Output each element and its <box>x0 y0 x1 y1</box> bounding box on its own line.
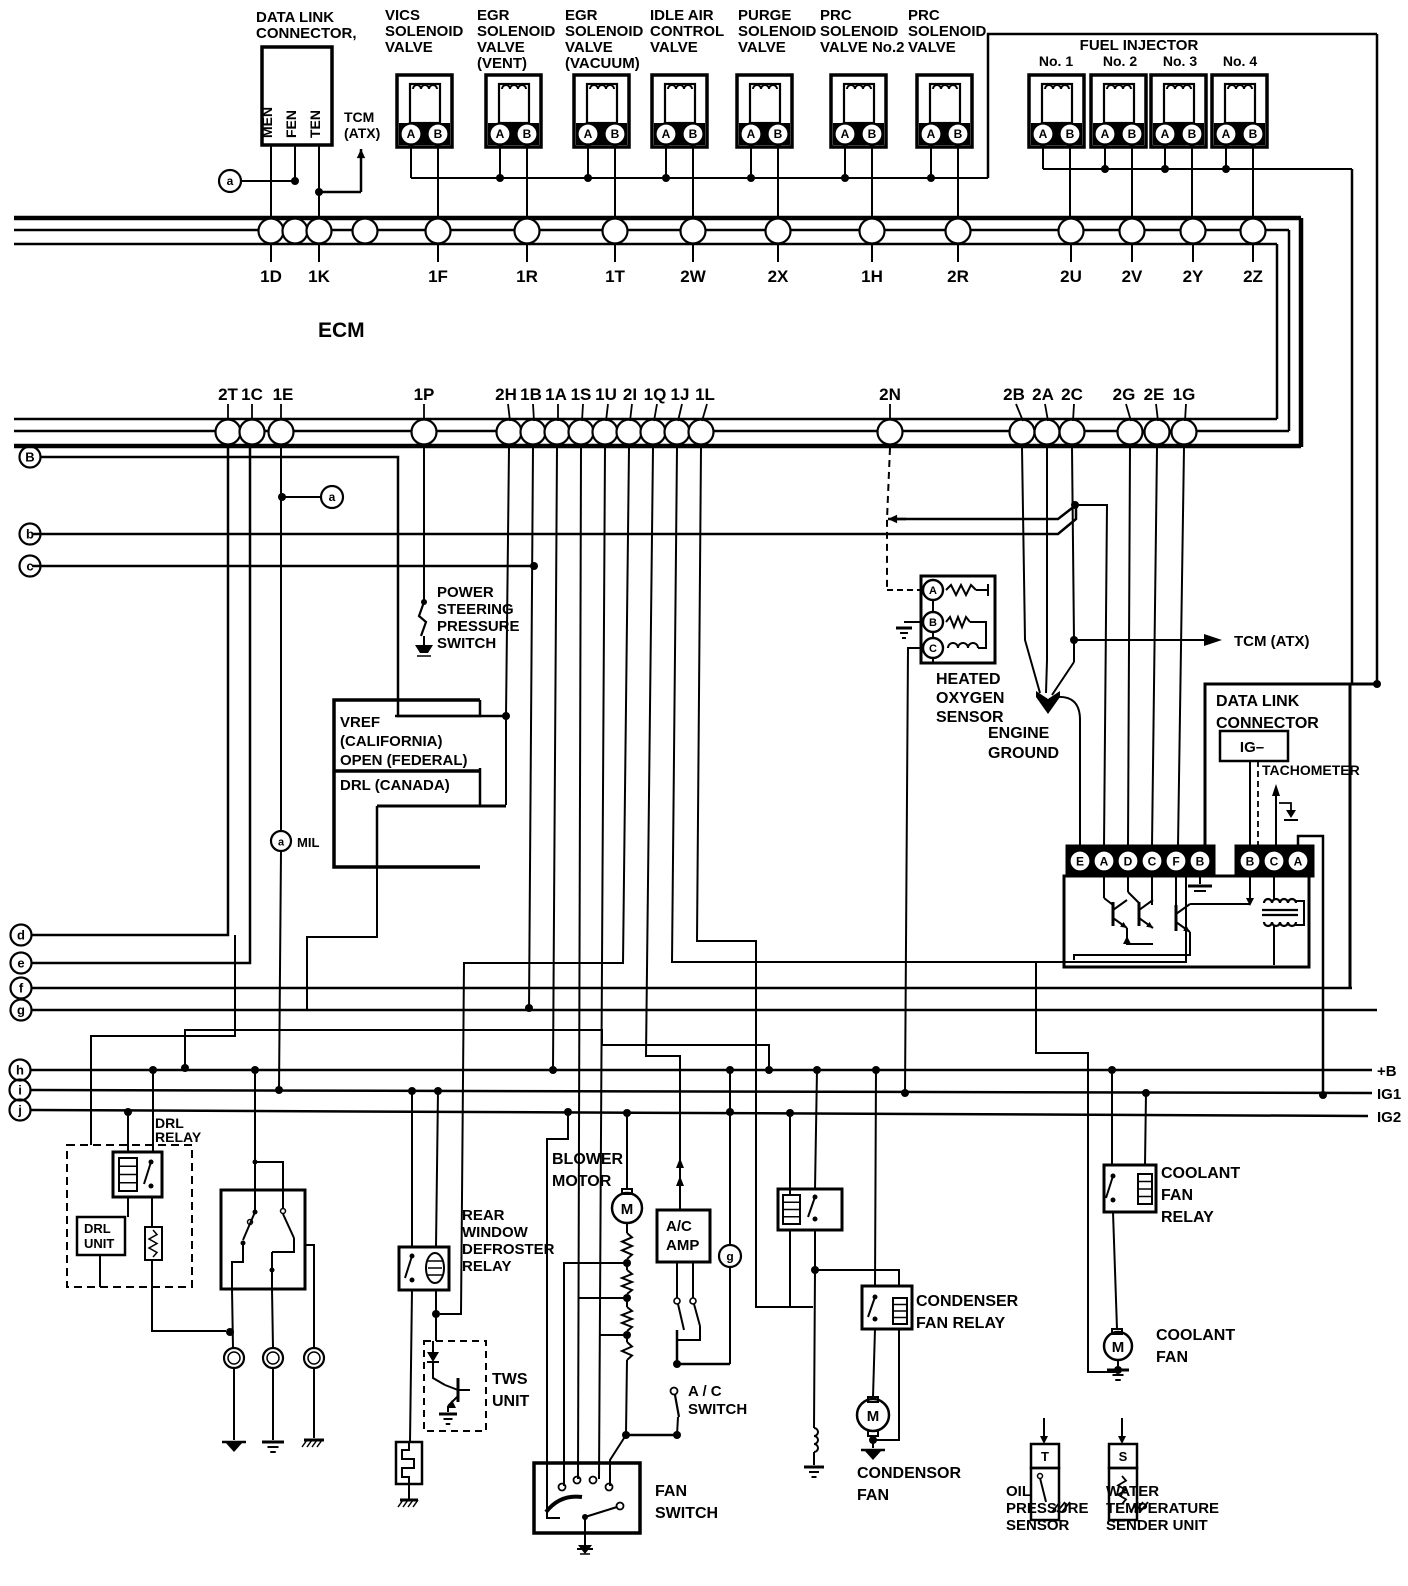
wire condenser fan to ground <box>872 1436 874 1448</box>
wire coolant fan to ground <box>1117 1360 1119 1368</box>
svg-text:j: j <box>17 1103 22 1118</box>
svg-text:B: B <box>1249 127 1258 141</box>
wire injector A common line <box>1042 147 1044 169</box>
wire chain bottom <box>626 1360 627 1433</box>
ref circle B <box>20 447 41 468</box>
wire IAC B pin to bus <box>692 147 694 219</box>
svg-text:PRESSURE: PRESSURE <box>1006 1500 1089 1517</box>
node TWS junction <box>432 1310 440 1318</box>
wire ECM upper bus top line <box>14 216 1301 221</box>
svg-text:VALVE: VALVE <box>565 39 613 56</box>
ground fuse <box>400 1499 418 1502</box>
wire 2H drop to VREF <box>506 448 509 805</box>
svg-text:B: B <box>25 450 34 465</box>
svg-text:h: h <box>16 1063 24 1078</box>
ECM pin 1D (upper bus) <box>259 219 284 244</box>
wire FEN to node a <box>294 145 296 181</box>
wire AC relay coil return <box>789 1230 791 1307</box>
wire Q3 emitter down <box>1074 932 1190 960</box>
ground lamp2 <box>262 1441 284 1444</box>
wire VICS B pin to bus <box>437 147 439 219</box>
wire MIL to IG1 <box>279 851 281 1090</box>
wire IG- solid drop <box>1249 761 1251 846</box>
wire tap1 to fan switch <box>564 1263 627 1486</box>
box IG- terminal <box>1220 731 1288 761</box>
ECM pin 2A (lower bus) <box>1035 420 1060 445</box>
svg-text:2Z: 2Z <box>1243 267 1263 286</box>
wire 2I drop jog to defroster relay path <box>440 448 629 1314</box>
transistor Q2 <box>1127 876 1129 892</box>
svg-text:A: A <box>662 127 671 141</box>
hatch WTSU case ground <box>1130 1502 1138 1512</box>
ECM pin 1L (lower bus) <box>689 420 714 445</box>
ref circle a2 <box>321 486 343 508</box>
svg-text:B: B <box>1196 855 1205 869</box>
arrow marks on AC amp feed <box>676 1158 684 1168</box>
connector DLC pins B C A <box>1236 846 1313 876</box>
wire PURGE A pin <box>750 147 752 178</box>
svg-text:(ATX): (ATX) <box>344 125 380 141</box>
svg-text:A: A <box>1161 127 1170 141</box>
svg-text:A: A <box>841 127 850 141</box>
wire injector No.3 A pin <box>1164 147 1166 169</box>
ECM pin 2T (lower bus) <box>216 420 241 445</box>
svg-text:a: a <box>227 174 234 188</box>
node g-wire +B <box>726 1066 734 1074</box>
svg-text:ENGINE: ENGINE <box>988 725 1050 742</box>
wire net b <box>32 507 1076 534</box>
wire tap3 joins 1U wire <box>599 1334 627 1336</box>
svg-text:M: M <box>867 1408 880 1425</box>
relay coolant fan relay <box>1104 1165 1156 1212</box>
node AC relay coil IG2 <box>786 1109 794 1117</box>
ECM pin 1K (upper bus) <box>307 219 332 244</box>
wire EGRvac B pin to bus <box>614 147 616 219</box>
node coolant relay contact +B <box>1108 1066 1116 1074</box>
node 1B g-line end <box>525 1004 533 1012</box>
relay condenser fan relay <box>862 1286 912 1329</box>
wire net d <box>32 447 228 935</box>
svg-text:VALVE: VALVE <box>908 39 956 56</box>
svg-text:A: A <box>584 127 593 141</box>
ground lamp1 <box>225 1442 243 1452</box>
svg-text:1P: 1P <box>414 385 435 404</box>
wire net i (IG1 rail) <box>31 1090 1372 1093</box>
svg-text:2R: 2R <box>947 267 969 286</box>
wire 2C diagonal to engine ground <box>1052 662 1074 695</box>
svg-text:CONNECTOR,: CONNECTOR, <box>256 25 357 42</box>
svg-text:2W: 2W <box>680 267 706 286</box>
wire IG2 to blower motor <box>626 1113 628 1189</box>
ignition coil core <box>1262 909 1298 911</box>
ground TWS emitter <box>447 1406 449 1412</box>
wire tach branch to ground <box>1279 803 1291 810</box>
svg-text:IG–: IG– <box>1240 739 1264 756</box>
unit TWS dashed box <box>424 1341 486 1431</box>
svg-text:2T: 2T <box>218 385 238 404</box>
svg-text:AMP: AMP <box>666 1237 699 1254</box>
ref circle j <box>10 1100 31 1121</box>
ECM pin 2B (lower bus) <box>1010 420 1035 445</box>
ECM pin 1J (lower bus) <box>665 420 690 445</box>
lamp headlight L1 <box>224 1348 244 1368</box>
node tap3 <box>623 1331 631 1339</box>
fuel injector No.4 <box>1212 75 1267 147</box>
svg-text:WATER: WATER <box>1106 1483 1159 1500</box>
node AC relay contact +B <box>813 1066 821 1074</box>
sensor water temperature sender unit <box>1121 1418 1123 1440</box>
wire 1E drop <box>280 448 282 831</box>
svg-text:FEN: FEN <box>283 110 299 138</box>
wire ECM upper bus middle line <box>14 229 1289 232</box>
wire to g ref circle <box>677 1363 730 1366</box>
svg-text:CONDENSOR: CONDENSOR <box>857 1465 961 1482</box>
svg-text:No. 2: No. 2 <box>1103 53 1137 69</box>
wire AC relay branch down <box>814 1270 815 1428</box>
svg-text:DEFROSTER: DEFROSTER <box>462 1241 555 1258</box>
wire lamp1 to ground <box>233 1368 235 1440</box>
wire fan switch to ground <box>584 1517 586 1545</box>
inductor noise coil <box>814 1428 818 1452</box>
svg-text:DRL (CANADA): DRL (CANADA) <box>340 777 450 794</box>
node blower IG2 <box>623 1109 631 1117</box>
svg-text:A/C: A/C <box>666 1218 692 1235</box>
wire HO2S C to IG1 <box>932 658 934 663</box>
svg-text:D: D <box>1124 855 1133 869</box>
svg-text:SWITCH: SWITCH <box>688 1401 747 1418</box>
svg-text:2V: 2V <box>1122 267 1143 286</box>
node 1A +B junction <box>549 1066 557 1074</box>
wire AC switch node down <box>673 1431 681 1439</box>
wire coolant fan return jog <box>1036 962 1118 1372</box>
svg-text:1F: 1F <box>428 267 448 286</box>
svg-text:POWER: POWER <box>437 584 494 601</box>
svg-text:2E: 2E <box>1144 385 1165 404</box>
ECM pin unlabeled (upper bus) <box>283 219 308 244</box>
ground engine ground arrow <box>1036 691 1060 714</box>
wire PRC B pin to bus <box>957 147 959 219</box>
svg-text:OXYGEN: OXYGEN <box>936 690 1004 707</box>
svg-text:DATA LINK: DATA LINK <box>256 9 334 26</box>
svg-text:A: A <box>407 127 416 141</box>
wire IG2 to AC relay coil <box>789 1113 791 1195</box>
wire 2N dashed drop <box>887 448 890 590</box>
ECM pin 1P (lower bus) <box>412 420 437 445</box>
wire connector E curve to engine ground <box>1056 697 1080 846</box>
fuel injector No.2 <box>1091 75 1146 147</box>
wire B pin (DLC) to Q3 base <box>1249 876 1251 904</box>
svg-text:A / C: A / C <box>688 1383 722 1400</box>
wire diode to transistor <box>433 1362 445 1385</box>
switch blade 2 <box>282 1190 284 1208</box>
wire IAC A pin <box>665 147 667 178</box>
wire g ref drop <box>729 1070 731 1364</box>
svg-text:2Y: 2Y <box>1183 267 1204 286</box>
svg-text:FAN: FAN <box>1161 1187 1193 1204</box>
switch A/C switch <box>671 1388 678 1395</box>
resistor HO2S A element <box>946 585 976 595</box>
svg-text:HEATED: HEATED <box>936 671 1001 688</box>
wire DRL resistor to lamp line <box>152 1260 226 1331</box>
node fan switch feed IG2 <box>564 1108 572 1116</box>
svg-text:C: C <box>1270 855 1279 869</box>
wire TCM (ATX) line <box>1074 639 1204 641</box>
wire coil to ground <box>813 1452 815 1465</box>
wire IG- dashed drop <box>1257 761 1259 846</box>
svg-text:No. 1: No. 1 <box>1039 53 1073 69</box>
wire b-net arrow line to 2C <box>896 505 1076 519</box>
wire +B to DRL contact <box>152 1070 154 1152</box>
svg-text:A: A <box>1039 127 1048 141</box>
svg-text:SOLENOID: SOLENOID <box>565 23 644 40</box>
wire injector No.2 B pin to bus <box>1131 147 1133 219</box>
node A-IG1 <box>1319 1091 1327 1099</box>
node g net to DLC corner <box>1373 680 1381 688</box>
node c-1B junction <box>530 562 538 570</box>
svg-text:1L: 1L <box>695 385 715 404</box>
ECM pin 2X (upper bus) <box>766 219 791 244</box>
wire lamp3 from switch <box>305 1245 314 1349</box>
svg-text:FAN: FAN <box>857 1487 889 1504</box>
wire EGRV A pin <box>499 147 501 178</box>
wire IG1 to defroster coil <box>436 1091 438 1247</box>
wire injector No.4 B pin to bus <box>1252 147 1254 219</box>
svg-text:DATA LINK: DATA LINK <box>1216 693 1300 710</box>
svg-text:2N: 2N <box>879 385 901 404</box>
wire 1G drop to connector F <box>1178 448 1184 846</box>
wire IG2 to fan switch rotor <box>547 1112 568 1518</box>
ref circle e <box>11 953 32 974</box>
wire 2A drop to engine ground <box>1046 448 1047 693</box>
ECM pin 2N (lower bus) <box>878 420 903 445</box>
wire coolant relay out <box>1113 1212 1117 1329</box>
wire net B <box>41 457 506 716</box>
wire net g <box>32 1009 1377 1012</box>
wire branch to connector A pin <box>1076 505 1107 846</box>
svg-text:B: B <box>929 617 937 629</box>
svg-text:A: A <box>1101 127 1110 141</box>
box ECM driver circuit <box>1064 876 1309 967</box>
wire lamp2 from switch <box>271 1252 273 1289</box>
resistor blower R1 <box>626 1223 628 1233</box>
wire net f <box>32 987 1352 990</box>
ground connector B pin <box>1199 876 1201 884</box>
svg-text:CONTROL: CONTROL <box>650 23 724 40</box>
svg-text:1S: 1S <box>571 385 592 404</box>
wire 1B drop <box>529 448 533 1010</box>
svg-text:2H: 2H <box>495 385 517 404</box>
wire net j (IG2 rail) <box>31 1110 1368 1116</box>
svg-text:EGR: EGR <box>477 7 510 24</box>
svg-text:B: B <box>523 127 532 141</box>
svg-text:BLOWER: BLOWER <box>552 1151 624 1168</box>
svg-text:VALVE: VALVE <box>650 39 698 56</box>
node B-2H junction <box>502 712 510 720</box>
svg-text:SOLENOID: SOLENOID <box>738 23 817 40</box>
svg-text:1D: 1D <box>260 267 282 286</box>
wire +B branch jog <box>185 1030 769 1070</box>
wire 1Q drop jog to AC amp <box>646 448 680 1210</box>
connector J1 data link connector (MEN FEN TEN) <box>262 47 332 145</box>
wire solenoid A common line <box>410 147 412 178</box>
resistor blower R3 <box>626 1298 628 1307</box>
svg-text:B: B <box>1066 127 1075 141</box>
wire defroster coil to TWS node <box>435 1290 437 1314</box>
svg-text:RELAY: RELAY <box>1161 1209 1214 1226</box>
wire 2E drop to connector C <box>1152 448 1157 846</box>
ECM pin 2H (lower bus) <box>497 420 522 445</box>
wire net h (+B rail) <box>31 1069 1372 1072</box>
svg-text:B: B <box>1246 855 1255 869</box>
wire defroster contact out to fuse <box>410 1290 412 1442</box>
solenoid valve IAC <box>652 75 707 147</box>
ECM pin 1E (lower bus) <box>269 420 294 445</box>
wire +B to headlight switch <box>251 1066 259 1074</box>
svg-text:No. 4: No. 4 <box>1223 53 1257 69</box>
svg-text:1H: 1H <box>861 267 883 286</box>
svg-text:1B: 1B <box>520 385 542 404</box>
motor blower motor <box>622 1189 632 1194</box>
svg-text:A: A <box>747 127 756 141</box>
svg-text:FUEL INJECTOR: FUEL INJECTOR <box>1080 37 1199 54</box>
node DRL coil IG2 <box>124 1108 132 1116</box>
ref circle a <box>219 170 241 192</box>
svg-text:g: g <box>17 1003 25 1018</box>
ECM pin 2Y (upper bus) <box>1181 219 1206 244</box>
node 2C TCM tap <box>1070 636 1078 644</box>
wire 1L drop jog right <box>697 448 813 1307</box>
svg-text:+B: +B <box>1377 1063 1397 1080</box>
svg-text:GROUND: GROUND <box>988 745 1059 762</box>
lamp headlight L3 <box>304 1348 324 1368</box>
svg-text:IDLE AIR: IDLE AIR <box>650 7 714 24</box>
wire ECM upper bus bottom line <box>14 243 1277 246</box>
wire solenoid common up-right to g-net <box>988 34 1377 178</box>
wire condenser coil return <box>873 1329 899 1440</box>
switch blade 1 <box>254 1190 256 1212</box>
ECM pin 1T (upper bus) <box>603 219 628 244</box>
node HO2S-IG1 <box>901 1089 909 1097</box>
wire C F pins into box <box>1151 876 1153 905</box>
wire feed from d-line to DRL box <box>91 935 235 1145</box>
wire g-net right side vertical <box>1376 34 1379 684</box>
svg-text:DRL: DRL <box>84 1221 111 1236</box>
svg-text:No. 3: No. 3 <box>1163 53 1197 69</box>
wire EGRV B pin to bus <box>526 147 528 219</box>
svg-text:SENSOR: SENSOR <box>936 709 1004 726</box>
wire lamp3 to ground <box>313 1368 315 1438</box>
ECM pin 2V (upper bus) <box>1120 219 1145 244</box>
ECM pin 1F (upper bus) <box>426 219 451 244</box>
svg-text:IG1: IG1 <box>1377 1086 1401 1103</box>
svg-text:TCM (ATX): TCM (ATX) <box>1234 633 1310 650</box>
resistor DRL <box>145 1227 162 1260</box>
wire TCM(ATX) arrow <box>319 191 361 194</box>
svg-text:d: d <box>17 928 25 943</box>
switch AC amp contact 2 <box>690 1298 696 1304</box>
svg-text:STEERING: STEERING <box>437 601 514 618</box>
wire net e <box>32 447 250 963</box>
svg-text:A: A <box>1294 855 1303 869</box>
wire injector No.2 A pin <box>1104 147 1106 169</box>
svg-text:VALVE: VALVE <box>385 39 433 56</box>
wire AC amp out2 <box>692 1262 694 1298</box>
svg-text:OIL: OIL <box>1006 1483 1031 1500</box>
svg-text:1Q: 1Q <box>644 385 667 404</box>
wire ECM lower bus bottom line <box>14 444 1301 449</box>
ref circle g2 <box>719 1245 741 1267</box>
wire tap2 joins 1S wire <box>578 1297 627 1299</box>
svg-text:SOLENOID: SOLENOID <box>820 23 899 40</box>
relay rear window defroster relay <box>399 1247 449 1290</box>
ECM pin 1U (lower bus) <box>593 420 618 445</box>
ref circle g <box>11 1000 32 1021</box>
svg-text:2A: 2A <box>1032 385 1054 404</box>
fan switch blade2 <box>617 1503 624 1510</box>
wire coil to box bottom <box>1273 926 1275 965</box>
fuse rear defroster <box>396 1442 422 1484</box>
node a junction <box>291 177 299 185</box>
wire condenser relay out <box>873 1329 875 1397</box>
ECM pin 1H (upper bus) <box>860 219 885 244</box>
svg-text:RELAY: RELAY <box>155 1129 202 1145</box>
svg-text:PRC: PRC <box>908 7 940 24</box>
svg-text:CONDENSER: CONDENSER <box>916 1293 1019 1310</box>
svg-text:B: B <box>434 127 443 141</box>
transistor Q1 <box>1104 898 1113 905</box>
wire chain to AC switch <box>626 1434 677 1437</box>
svg-text:OPEN (FEDERAL): OPEN (FEDERAL) <box>340 752 468 769</box>
svg-text:A: A <box>496 127 505 141</box>
relay A/C relay <box>778 1189 842 1230</box>
wire 1P drop <box>423 448 425 600</box>
ref circle f <box>11 978 32 999</box>
svg-text:B: B <box>689 127 698 141</box>
svg-text:F: F <box>1172 855 1179 869</box>
svg-text:UNIT: UNIT <box>84 1236 114 1251</box>
wire HO2S A dashed lead <box>887 589 921 591</box>
wire 1S drop to fan switch <box>578 448 581 1479</box>
node chain bottom junction <box>622 1431 630 1439</box>
wire to a-circle 2 <box>282 496 321 498</box>
unit A/C AMP <box>657 1210 710 1262</box>
node g-wire join <box>673 1360 681 1368</box>
node condenser fan ground <box>869 1436 877 1444</box>
svg-text:MEN: MEN <box>259 107 275 138</box>
svg-text:1G: 1G <box>1173 385 1196 404</box>
ground fan switch <box>578 1545 592 1554</box>
wire chain to fan switch pin4 <box>610 1435 626 1486</box>
ground coolant fan <box>1107 1369 1129 1372</box>
ignition coil secondary <box>1264 922 1296 926</box>
hatch OPS case ground <box>1052 1502 1060 1512</box>
svg-text:e: e <box>17 956 24 971</box>
wire 2C drop <box>1072 448 1074 662</box>
svg-text:M: M <box>1112 1339 1125 1356</box>
svg-text:PURGE: PURGE <box>738 7 791 24</box>
wire PRC2 B pin to bus <box>871 147 873 219</box>
svg-text:1J: 1J <box>671 385 690 404</box>
wire 2B drop to engine ground <box>1022 448 1040 693</box>
resistor HO2S B element <box>946 617 970 627</box>
sensor heated oxygen sensor <box>921 576 995 663</box>
svg-text:S: S <box>1119 1449 1128 1464</box>
svg-text:FAN: FAN <box>655 1483 687 1500</box>
wire TWS node down <box>435 1314 437 1341</box>
wire to a-circle <box>242 180 295 182</box>
wire lamp2 to ground <box>272 1368 274 1440</box>
node condenser relay +B <box>872 1066 880 1074</box>
